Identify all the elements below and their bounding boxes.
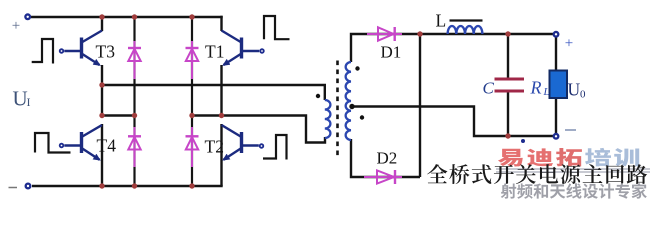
svg-text:I: I bbox=[27, 95, 31, 109]
wire load leads bbox=[555, 37, 557, 134]
drive pulse T4 bbox=[35, 133, 71, 153]
wire capacitor leads bbox=[507, 34, 509, 136]
wire center tap return bbox=[352, 107, 553, 137]
svg-text:T1: T1 bbox=[205, 42, 224, 62]
diode across T3 bbox=[128, 41, 141, 79]
junction bottom rail D4 column bbox=[132, 183, 137, 188]
junction output top C lead bbox=[505, 31, 510, 36]
junction node B diode column bbox=[189, 113, 194, 118]
input terminal plus bbox=[24, 13, 31, 20]
svg-text:R: R bbox=[530, 78, 542, 98]
secondary upper polarity dot bbox=[355, 66, 359, 70]
rectifier diode D2 bbox=[364, 170, 402, 184]
drive pulse T2 bbox=[263, 135, 287, 160]
wire right leg segments bbox=[220, 16, 222, 186]
junction top rail D1 column bbox=[189, 14, 194, 19]
inductor core bar bbox=[450, 19, 483, 21]
drive pulse T1 bbox=[264, 16, 290, 39]
junction top rail T3 leg bbox=[99, 14, 104, 19]
svg-text:C: C bbox=[483, 79, 495, 98]
base terminal T1 bbox=[259, 48, 264, 53]
secondary lower polarity dot bbox=[360, 115, 364, 119]
watermark underline bbox=[496, 169, 650, 172]
caption text bbox=[427, 164, 647, 184]
label UI bbox=[13, 87, 31, 111]
svg-text:+: + bbox=[12, 18, 20, 34]
diode across T2 bbox=[186, 127, 199, 167]
drive pulse T3 bbox=[32, 39, 53, 64]
transistor T3 bbox=[64, 31, 102, 66]
junction node A upper bbox=[99, 82, 104, 87]
svg-text:T4: T4 bbox=[97, 136, 117, 156]
diode across T1 bbox=[186, 41, 199, 79]
center tap junction bbox=[349, 104, 354, 109]
wire left leg segments bbox=[101, 16, 103, 186]
svg-text:+: + bbox=[565, 36, 573, 52]
label U0 bbox=[568, 80, 587, 101]
svg-text:U: U bbox=[13, 87, 28, 111]
junction D1 cathode bus bbox=[417, 31, 422, 36]
junction bottom rail T4 leg bbox=[99, 183, 104, 188]
junction node A lower bbox=[99, 113, 104, 118]
wire secondary bottom to D2 bbox=[351, 139, 420, 177]
svg-text:L: L bbox=[543, 86, 550, 98]
svg-text:T2: T2 bbox=[205, 137, 224, 157]
diode across T4 bbox=[128, 127, 141, 167]
wire D1 D2 cathode bus bbox=[419, 34, 421, 177]
svg-text:D1: D1 bbox=[381, 43, 402, 62]
wire node A to transformer primary top bbox=[102, 85, 325, 100]
wire node B to transformer primary bottom bbox=[192, 116, 325, 143]
transformer primary winding bbox=[325, 100, 331, 138]
junction output bottom C lead bbox=[505, 133, 510, 138]
base terminal T2 bbox=[259, 143, 264, 148]
capacitor C plates bbox=[495, 79, 525, 91]
wire node A lower jumper bbox=[102, 114, 135, 116]
junction bottom rail D2 column bbox=[189, 183, 194, 188]
watermark brand text bbox=[498, 148, 639, 167]
input terminal minus bbox=[25, 183, 32, 190]
junction top rail D3 column bbox=[132, 14, 137, 19]
transistor T4 bbox=[64, 125, 102, 160]
output terminal plus bbox=[553, 31, 560, 38]
label minus output bbox=[565, 129, 576, 131]
base terminal T4 bbox=[59, 143, 64, 148]
watermark subtitle text bbox=[501, 183, 647, 199]
svg-text:0: 0 bbox=[580, 89, 586, 101]
transistor T1 bbox=[222, 31, 260, 66]
wire top rail bbox=[31, 16, 223, 18]
label minus input bbox=[9, 187, 18, 189]
wire secondary top to output bbox=[351, 34, 553, 62]
label RL bbox=[530, 78, 550, 99]
wire diode column right bbox=[191, 17, 193, 186]
transformer core bbox=[336, 61, 339, 157]
junction node B leg bbox=[219, 113, 224, 118]
rectifier diode D1 bbox=[367, 27, 402, 41]
svg-text:L: L bbox=[436, 11, 447, 31]
watermark logo dot bbox=[521, 139, 525, 143]
svg-text:U: U bbox=[568, 80, 581, 100]
inductor L winding bbox=[448, 26, 483, 34]
primary polarity dot bbox=[316, 94, 320, 98]
load resistor RL bbox=[550, 71, 568, 99]
base terminal T3 bbox=[59, 48, 64, 53]
wire bottom rail bbox=[32, 185, 223, 187]
junction node A diode column bbox=[132, 113, 137, 118]
transformer secondary winding bbox=[346, 62, 351, 140]
transistor T2 bbox=[222, 125, 259, 160]
svg-text:D2: D2 bbox=[377, 149, 398, 168]
output terminal minus bbox=[553, 133, 560, 140]
wire diode column left bbox=[133, 17, 135, 186]
svg-text:T3: T3 bbox=[96, 42, 116, 62]
